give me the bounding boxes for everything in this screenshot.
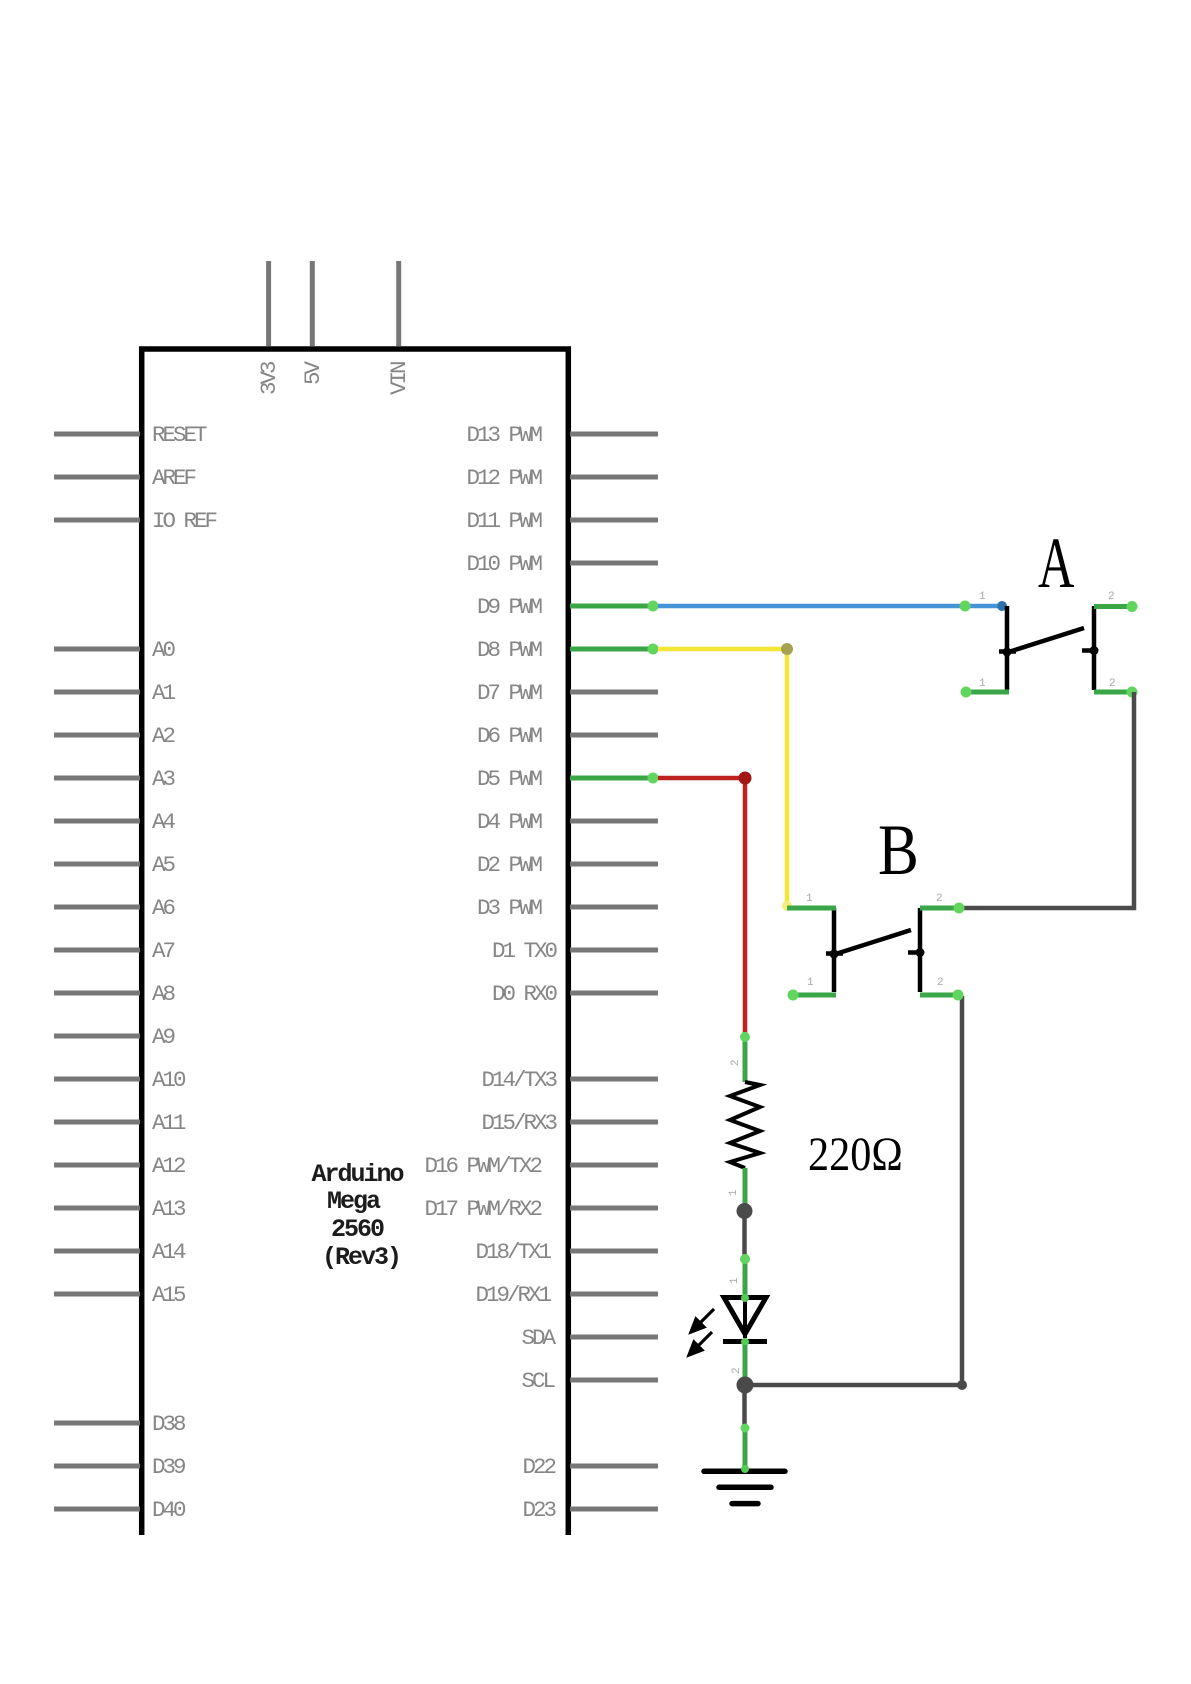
svg-text:D19/RX1: D19/RX1 (475, 1282, 551, 1308)
svg-text:2: 2 (1108, 591, 1114, 603)
svg-text:D14/TX3: D14/TX3 (481, 1067, 557, 1093)
svg-text:D3 PWM: D3 PWM (477, 895, 543, 921)
svg-text:IO REF: IO REF (152, 508, 217, 534)
svg-text:A10: A10 (152, 1067, 186, 1093)
svg-text:2560: 2560 (331, 1215, 384, 1244)
svg-text:1: 1 (807, 977, 814, 989)
svg-text:A6: A6 (152, 895, 176, 921)
svg-text:2: 2 (936, 893, 942, 905)
svg-text:D8 PWM: D8 PWM (477, 637, 543, 663)
svg-text:A13: A13 (152, 1196, 186, 1222)
svg-text:AREF: AREF (152, 465, 196, 491)
svg-text:A1: A1 (152, 680, 176, 706)
svg-text:D23: D23 (522, 1497, 556, 1523)
svg-text:D1 TX0: D1 TX0 (492, 938, 558, 964)
svg-text:D15/RX3: D15/RX3 (481, 1110, 557, 1136)
svg-text:D4 PWM: D4 PWM (477, 809, 543, 835)
svg-text:3V3: 3V3 (256, 361, 282, 395)
svg-text:Mega: Mega (327, 1187, 381, 1216)
svg-text:A: A (1038, 524, 1074, 603)
svg-text:1: 1 (806, 893, 813, 905)
svg-text:D7 PWM: D7 PWM (477, 680, 543, 706)
svg-text:2: 2 (1109, 678, 1115, 690)
svg-text:2: 2 (937, 977, 943, 989)
svg-text:D10 PWM: D10 PWM (466, 551, 542, 577)
svg-text:1: 1 (979, 591, 986, 603)
svg-text:D40: D40 (152, 1497, 186, 1523)
svg-text:2: 2 (730, 1060, 742, 1066)
svg-text:Arduino: Arduino (311, 1160, 403, 1189)
svg-text:1: 1 (729, 1277, 741, 1284)
svg-text:A11: A11 (152, 1110, 186, 1136)
svg-text:A0: A0 (152, 637, 176, 663)
svg-text:D39: D39 (152, 1454, 185, 1480)
svg-text:D2 PWM: D2 PWM (477, 852, 543, 878)
svg-text:A15: A15 (152, 1282, 186, 1308)
svg-text:A14: A14 (152, 1239, 186, 1265)
svg-text:220Ω: 220Ω (808, 1128, 903, 1181)
svg-text:D6 PWM: D6 PWM (477, 723, 543, 749)
svg-text:D38: D38 (152, 1411, 186, 1437)
svg-text:D18/TX1: D18/TX1 (475, 1239, 551, 1265)
svg-text:A4: A4 (152, 809, 176, 835)
svg-text:SCL: SCL (521, 1368, 555, 1394)
svg-text:RESET: RESET (152, 422, 207, 448)
svg-text:1: 1 (979, 678, 986, 690)
svg-text:A2: A2 (152, 723, 175, 749)
svg-text:SDA: SDA (521, 1325, 556, 1351)
svg-text:1: 1 (728, 1189, 740, 1196)
svg-text:D0 RX0: D0 RX0 (492, 981, 558, 1007)
svg-text:D11 PWM: D11 PWM (466, 508, 542, 534)
svg-text:D5 PWM: D5 PWM (477, 766, 543, 792)
svg-text:D17 PWM/RX2: D17 PWM/RX2 (424, 1196, 541, 1222)
svg-text:(Rev3): (Rev3) (322, 1243, 400, 1272)
svg-text:D13 PWM: D13 PWM (466, 422, 542, 448)
svg-text:B: B (878, 810, 919, 890)
svg-text:A12: A12 (152, 1153, 185, 1179)
svg-text:5V: 5V (300, 360, 326, 385)
svg-text:A3: A3 (152, 766, 176, 792)
svg-text:A9: A9 (152, 1024, 175, 1050)
svg-text:D9 PWM: D9 PWM (477, 594, 543, 620)
svg-text:D12 PWM: D12 PWM (466, 465, 542, 491)
svg-text:A8: A8 (152, 981, 176, 1007)
svg-text:A7: A7 (152, 938, 175, 964)
svg-text:D16 PWM/TX2: D16 PWM/TX2 (424, 1153, 541, 1179)
svg-text:2: 2 (731, 1368, 743, 1374)
svg-text:A5: A5 (152, 852, 176, 878)
svg-text:VIN: VIN (386, 362, 412, 395)
svg-text:D22: D22 (522, 1454, 555, 1480)
